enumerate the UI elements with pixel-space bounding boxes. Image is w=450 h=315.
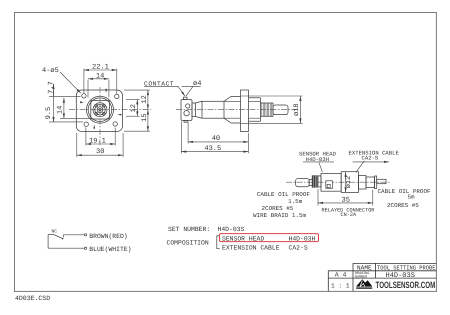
svg-text:CABLE OIL PROOF: CABLE OIL PROOF bbox=[257, 191, 310, 198]
svg-text:WIRE BRAID 1.5m: WIRE BRAID 1.5m bbox=[253, 212, 306, 219]
svg-text:H4D-03S: H4D-03S bbox=[218, 226, 245, 233]
svg-text:12: 12 bbox=[130, 104, 138, 112]
svg-text:4D03E.CSD: 4D03E.CSD bbox=[15, 295, 50, 302]
svg-text:4-ø5: 4-ø5 bbox=[42, 67, 59, 75]
svg-text:NAME: NAME bbox=[357, 264, 372, 271]
svg-text:1 : 1: 1 : 1 bbox=[331, 283, 350, 290]
svg-text:ø4: ø4 bbox=[193, 80, 201, 88]
svg-text:19.1: 19.1 bbox=[89, 137, 106, 145]
svg-text:TOOLSENSOR.COM: TOOLSENSOR.COM bbox=[376, 280, 436, 290]
svg-text:9.5: 9.5 bbox=[45, 107, 53, 120]
svg-text:EXTENSION CABLE: EXTENSION CABLE bbox=[222, 244, 280, 251]
svg-text:35: 35 bbox=[342, 196, 350, 204]
svg-text:14: 14 bbox=[56, 106, 64, 114]
svg-text:H4D-03S: H4D-03S bbox=[386, 272, 415, 280]
svg-text:30: 30 bbox=[96, 148, 104, 156]
svg-text:5m: 5m bbox=[408, 193, 416, 200]
svg-text:TOOL SETTING PROBE: TOOL SETTING PROBE bbox=[377, 264, 436, 271]
svg-text:1.5m: 1.5m bbox=[288, 198, 303, 205]
svg-text:NC: NC bbox=[52, 229, 58, 235]
svg-text:7.7: 7.7 bbox=[48, 81, 56, 94]
svg-text:COMPOSITION: COMPOSITION bbox=[167, 239, 209, 246]
svg-text:CABLE OIL PROOF: CABLE OIL PROOF bbox=[378, 188, 431, 195]
svg-text:A 4: A 4 bbox=[335, 272, 347, 279]
svg-text:43.5: 43.5 bbox=[204, 145, 221, 153]
svg-text:14: 14 bbox=[96, 72, 104, 80]
svg-text:ø18: ø18 bbox=[293, 103, 301, 116]
svg-text:SET NUMBER:: SET NUMBER: bbox=[168, 226, 210, 233]
svg-text:NUMBER: NUMBER bbox=[355, 274, 367, 279]
svg-text:ø12: ø12 bbox=[345, 176, 353, 189]
svg-text:40: 40 bbox=[212, 135, 220, 143]
svg-text:CA2-S: CA2-S bbox=[362, 155, 379, 162]
svg-text:BLUE(WHITE): BLUE(WHITE) bbox=[89, 246, 131, 253]
svg-text:BROWN(RED): BROWN(RED) bbox=[89, 233, 127, 240]
svg-text:CN-2A: CN-2A bbox=[341, 212, 357, 218]
svg-text:2CORES #5: 2CORES #5 bbox=[387, 202, 419, 209]
svg-text:12: 12 bbox=[141, 95, 149, 103]
svg-text:2CORES #5: 2CORES #5 bbox=[262, 205, 294, 212]
svg-text:15: 15 bbox=[141, 113, 149, 121]
svg-text:CA2-S: CA2-S bbox=[289, 244, 308, 251]
svg-text:22.1: 22.1 bbox=[92, 63, 109, 71]
